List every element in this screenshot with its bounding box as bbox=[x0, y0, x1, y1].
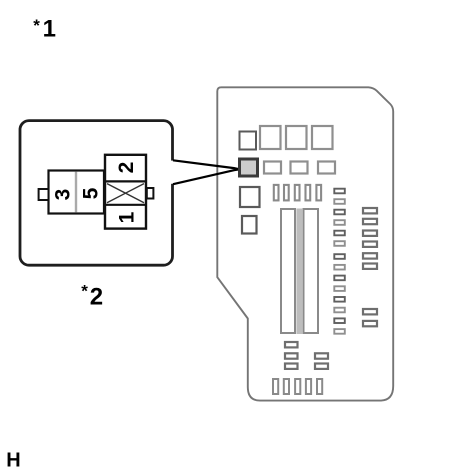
top comb rect 3 bbox=[295, 185, 300, 201]
left column square B bbox=[242, 216, 257, 234]
row2 rect 2 bbox=[291, 162, 308, 174]
svg-text:1: 1 bbox=[43, 16, 56, 43]
svg-text:*: * bbox=[81, 282, 88, 301]
relay rect 3|5 bbox=[49, 171, 105, 214]
tall bar 2 bbox=[304, 209, 319, 333]
relay left tab bbox=[39, 189, 49, 200]
row1 small square bbox=[240, 132, 257, 150]
top comb rect 4 bbox=[306, 185, 311, 201]
relay column divider bottom bbox=[105, 204, 146, 206]
ladder fuse column (14 rungs) bbox=[334, 189, 345, 334]
callout bubble bbox=[20, 121, 173, 266]
svg-text:3: 3 bbox=[52, 189, 75, 201]
svg-text:2: 2 bbox=[90, 283, 103, 310]
row1 big square 2 bbox=[286, 126, 307, 149]
relay column divider top bbox=[105, 180, 146, 182]
tall bar 1 bbox=[281, 209, 295, 333]
relay column 2/X/1 bbox=[105, 155, 146, 229]
svg-text:5: 5 bbox=[80, 187, 103, 199]
relay right tab bbox=[147, 188, 154, 199]
relay divider between 3 and 5 bbox=[75, 172, 77, 213]
left column square A bbox=[240, 187, 260, 207]
row2 rect 3 bbox=[318, 162, 335, 174]
callout border gap bbox=[171, 161, 177, 184]
center gray stripe bbox=[296, 209, 302, 335]
callout tail upper line bbox=[173, 160, 238, 169]
bottom cluster left rects bbox=[285, 342, 328, 369]
bottom comb (5 slots) bbox=[273, 379, 322, 394]
top comb rect 2 bbox=[284, 185, 289, 201]
row1 big square 1 bbox=[260, 126, 281, 149]
row2 rect 1 bbox=[264, 162, 281, 174]
highlighted relay slot bbox=[240, 159, 258, 176]
svg-text:*: * bbox=[33, 16, 40, 35]
svg-text:H: H bbox=[6, 450, 20, 472]
far right fuse column bbox=[363, 208, 377, 326]
callout tail lower line bbox=[173, 170, 238, 185]
svg-text:1: 1 bbox=[116, 211, 139, 223]
fuse box outline bbox=[217, 87, 393, 400]
top comb rect 5 bbox=[316, 185, 321, 201]
row1 big square 3 bbox=[312, 126, 333, 149]
relay X cross bbox=[107, 184, 144, 203]
svg-text:2: 2 bbox=[115, 162, 138, 174]
bottom cluster right rects bbox=[315, 353, 328, 358]
top comb rect 1 bbox=[274, 185, 279, 201]
